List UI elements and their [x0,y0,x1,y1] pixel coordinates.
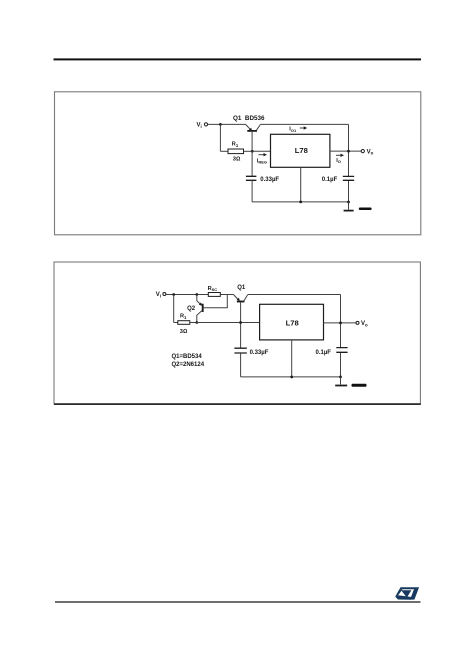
svg-text:Vo: Vo [361,321,368,327]
label schematic code (fig1) [359,208,372,211]
capacitor 0.33uF (fig1) [246,151,280,202]
node junction rail/right vertical (fig1) [347,201,350,204]
svg-text:IO: IO [336,158,341,164]
svg-text:Q1 BD536: Q1 BD536 [233,115,265,122]
svg-text:3Ω: 3Ω [233,157,241,163]
node junction Vi/R1 branch (fig2) [172,293,175,296]
wire bottom rail (fig1) [252,201,348,203]
svg-text:IO1: IO1 [289,127,297,133]
node junction Vi/R1 (fig1) [219,123,222,126]
node junction Q1 base/L78 input wire (fig2) [239,321,242,324]
svg-text:0.1µF: 0.1µF [322,177,338,183]
svg-text:RSC: RSC [208,286,218,292]
op-amp regulator U1 L78 (fig2) [260,304,324,340]
node Vi (fig2) input terminal [156,292,166,298]
svg-text:L78: L78 [295,146,308,155]
svg-text:Vi: Vi [156,292,161,298]
wire Vi to Q1 emitter (fig1) [208,123,246,125]
wire L78 output to Vo (fig1) [330,150,361,152]
resistor RSC (fig2) [208,286,234,297]
wire left vertical down to R1 (fig2) [173,295,175,323]
node junction Vi/Q2 emitter branch (fig2) [195,293,198,296]
svg-text:Q1=BD534: Q1=BD534 [172,354,203,360]
wire Q1 collector to right vertical (fig2) [248,294,341,296]
figure 1 frame [55,92,421,235]
svg-text:Q2=2N6124: Q2=2N6124 [172,362,205,368]
svg-text:Q1: Q1 [237,285,246,291]
figure 2 frame [54,262,420,404]
wire vertical Vi junction down to R1 (fig1) [219,124,221,151]
transistor Q1 BD536 (fig1) [233,115,265,151]
ground (fig2) [335,377,347,386]
wire right vertical from top wire to ground (fig1) [348,124,350,202]
label IO with arrow (fig1) [336,154,344,165]
wire Vi to RSC (fig2) [166,294,208,296]
wire Q2 base to post-RSC node (fig2) [204,295,228,308]
svg-text:Vo: Vo [367,149,374,155]
capacitor 0.33uF (fig2) [234,348,268,377]
svg-text:Vi: Vi [197,123,202,129]
svg-text:0.1µF: 0.1µF [316,350,332,356]
resistor R1 (fig1) [220,142,252,163]
label IO1 with arrow (fig1) [289,126,307,133]
wire R1 node to L78 input (fig1) [252,150,270,152]
node Vo (fig1) output terminal [361,149,373,155]
wire L78 ground pin (fig1) [300,167,302,202]
wire R1 to L78 input (fig2) [190,322,260,324]
node Vi (fig1) input terminal [197,123,208,129]
node junction output (fig2) [339,322,342,325]
wire right vertical (fig2) [340,295,342,377]
node junction Q2 collector/R1 wire (fig2) [195,321,198,324]
wire L78 ground pin (fig2) [291,340,293,377]
svg-text:0.33µF: 0.33µF [250,350,269,356]
node Vo (fig2) output terminal [356,321,368,327]
ST logo [395,587,419,600]
svg-text:R1: R1 [232,142,239,148]
svg-text:Q2: Q2 [187,306,196,312]
ground (fig1) [344,202,354,211]
svg-text:L78: L78 [286,319,299,328]
transistor Q2 (fig2) [187,295,203,323]
capacitor 0.1uF (fig2) [316,348,348,356]
top rule [54,58,422,60]
node junction ground pin/rail (fig1) [299,201,302,204]
svg-text:IREG: IREG [257,158,267,164]
transistor Q1 (fig2) [234,285,248,348]
node junction output (fig1) [347,150,350,153]
svg-text:3Ω: 3Ω [180,329,188,335]
node junction rail/right vertical (fig2) [339,376,342,379]
wire L78 output to Vo (fig2) [324,322,357,324]
node junction ground pin/rail (fig2) [290,376,293,379]
wire Q1 collector top wire to output vertical (fig1) [260,123,348,125]
label IREG with arrow (fig1) [257,153,267,165]
svg-text:R1: R1 [180,314,187,320]
resistor R1 (fig2) [174,314,190,335]
node junction base/R1/Cin (fig1) [251,150,254,153]
footer rule [55,601,421,603]
wire bottom rail (fig2) [241,376,341,378]
label schematic code (fig2) [352,384,367,387]
capacitor 0.1uF (fig1) [322,176,354,182]
svg-text:0.33µF: 0.33µF [260,177,279,183]
op-amp regulator U1 L78 (fig1) [271,134,330,167]
